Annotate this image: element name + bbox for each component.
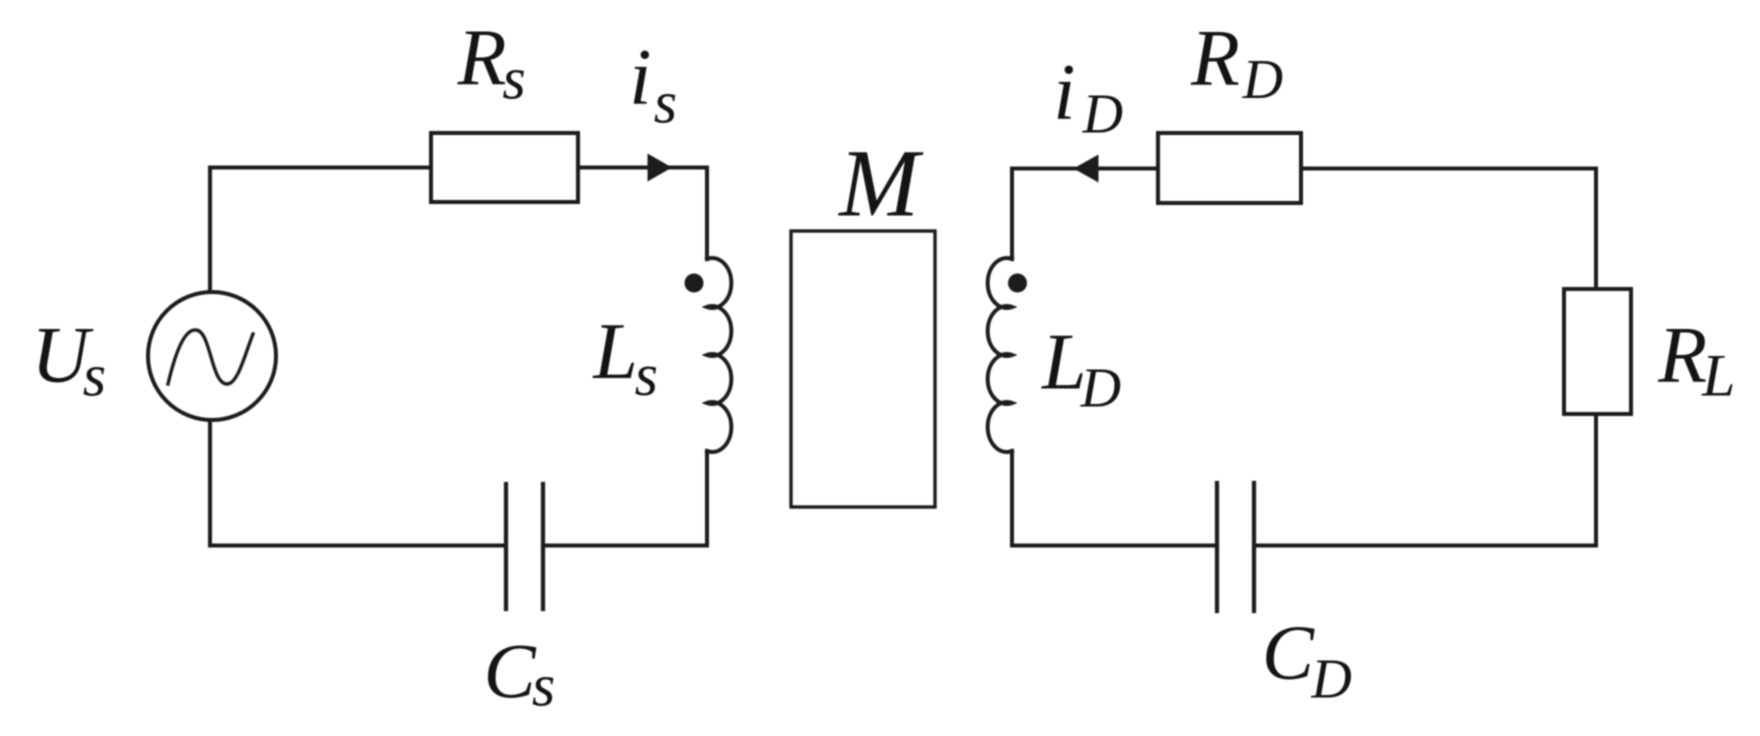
inductor LD coil (988, 258, 1012, 452)
source Us sine wave (168, 330, 253, 384)
inductor Ls coil (707, 258, 731, 452)
capacitor CD right plate (1252, 483, 1256, 611)
svg-text:i: i (1053, 49, 1075, 137)
svg-text:C: C (1262, 609, 1315, 696)
wire: right circuit left vertical above coil (1010, 169, 1014, 260)
svg-text:s: s (654, 70, 677, 136)
svg-text:R: R (457, 14, 507, 102)
arrow for current iD (pointing left) (1074, 155, 1099, 183)
dot marker Ls (685, 274, 704, 293)
svg-text:s: s (83, 343, 106, 409)
svg-text:D: D (1310, 648, 1351, 710)
wire: right circuit bottom right segment (1254, 544, 1596, 548)
svg-text:L: L (592, 308, 638, 396)
svg-text:s: s (635, 342, 658, 408)
wire: left circuit right vertical (below coil) (705, 451, 709, 546)
wire: right circuit right vertical below RL (1594, 414, 1598, 546)
svg-text:C: C (484, 627, 537, 714)
resistor RD (1158, 133, 1301, 203)
wire: left circuit bottom right segment (543, 544, 707, 548)
wire: right circuit bottom left segment (1012, 544, 1217, 548)
svg-text:M: M (837, 130, 924, 237)
svg-text:R: R (1657, 311, 1707, 399)
wire: resistor Rs right to corner (578, 166, 707, 170)
svg-text:D: D (1082, 84, 1123, 146)
svg-text:i: i (629, 34, 651, 122)
resistor Rs (431, 133, 578, 202)
wire: left circuit bottom left segment (210, 544, 506, 548)
wire: left circuit right vertical (top, above coil) (705, 168, 709, 260)
wire: right circuit right vertical above RL (1594, 169, 1598, 290)
wire: left circuit left vertical above source (208, 168, 212, 293)
arrow for current is (pointing right) (648, 154, 673, 182)
wire: resistor RD to right corner (1301, 167, 1596, 171)
wire: left circuit top horizontal (210, 166, 431, 170)
wire: right circuit top-left corner to resistor RD (1012, 167, 1158, 171)
wire: right circuit left vertical below coil (1010, 451, 1014, 546)
dot marker LD (1008, 274, 1027, 293)
svg-text:D: D (1242, 49, 1283, 111)
mutual coupling block M (791, 231, 935, 507)
svg-text:s: s (532, 652, 555, 718)
capacitor Cs left plate (504, 484, 508, 609)
wire: left circuit left vertical below source (208, 420, 212, 546)
capacitor Cs right plate (541, 484, 545, 609)
resistor RL (1564, 289, 1631, 414)
capacitor CD left plate (1215, 483, 1219, 611)
svg-text:R: R (1190, 15, 1240, 103)
svg-text:s: s (502, 45, 525, 111)
svg-text:D: D (1080, 358, 1121, 420)
source Us circle (148, 292, 276, 420)
svg-text:L: L (1701, 342, 1735, 408)
